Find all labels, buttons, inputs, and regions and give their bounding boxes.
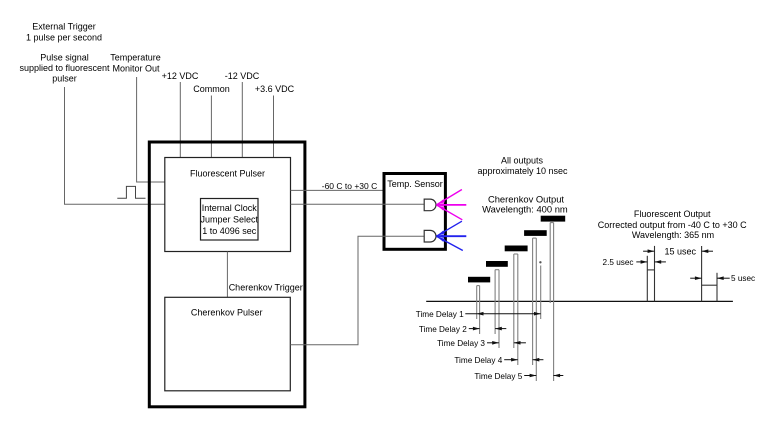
wire Common: [210, 96, 212, 158]
wire external trigger to fluorescent pulser: [65, 87, 165, 204]
wire +3.6 VDC: [273, 96, 275, 158]
cherenkov pulse 5 with extension lines: [550, 223, 553, 381]
block Fluorescent Pulser: [165, 158, 291, 252]
svg-text:All outputs: All outputs: [501, 156, 544, 166]
fluorescent pulse A with extension lines: [647, 246, 654, 302]
svg-text:-60 C to +30 C: -60 C to +30 C: [322, 181, 378, 191]
wire fluorescent pulser to sensor diode 1: [291, 203, 425, 205]
cherenkov pulse 1 with extension lines: [477, 286, 480, 334]
wire temperature monitor out: [137, 77, 165, 182]
svg-text:Time Delay 3: Time Delay 3: [437, 339, 485, 348]
svg-text:1 to 4096 sec: 1 to 4096 sec: [202, 226, 257, 236]
cherenkov bar 1: [468, 277, 490, 283]
dimension Time Delay 1: [416, 310, 541, 319]
svg-text:+3.6 VDC: +3.6 VDC: [255, 84, 295, 94]
wire Cherenkov Trigger: [226, 252, 228, 298]
svg-text:Wavelength: 365 nm: Wavelength: 365 nm: [632, 230, 714, 240]
svg-text:External Trigger: External Trigger: [32, 22, 96, 32]
LED D1: [424, 199, 436, 211]
svg-text:Time Delay 1: Time Delay 1: [416, 310, 464, 319]
dimension Time Delay 4: [454, 356, 543, 365]
LED D1 light rays (magenta): [436, 190, 466, 220]
cherenkov bar 5: [541, 216, 566, 222]
svg-text:Cherenkov Trigger: Cherenkov Trigger: [229, 282, 303, 292]
LED D2: [424, 230, 436, 242]
dimension 2.5 usec: [603, 258, 666, 267]
dimension Time Delay 3: [437, 339, 526, 348]
dimension 5 usec: [690, 274, 755, 283]
svg-text:5 usec: 5 usec: [731, 274, 755, 283]
dimension 15 usec: [643, 247, 713, 257]
svg-text:supplied to fluorescent: supplied to fluorescent: [19, 63, 110, 73]
svg-text:Fluorescent Pulser: Fluorescent Pulser: [190, 169, 265, 179]
svg-text:approximately 10 nsec: approximately 10 nsec: [477, 166, 568, 176]
svg-text:Temperature: Temperature: [110, 53, 161, 63]
chassis outer box (thick): [149, 142, 305, 407]
svg-text:Time Delay 5: Time Delay 5: [474, 372, 522, 381]
svg-text:-12 VDC: -12 VDC: [225, 71, 260, 81]
svg-text:Time Delay 4: Time Delay 4: [454, 356, 502, 365]
dimension Time Delay 2: [419, 325, 506, 334]
label: Temperature Monitor Out: [110, 53, 161, 74]
wire fluorescent pulser to temp sensor (upper): [291, 189, 385, 191]
reference dotted line: [539, 261, 541, 263]
svg-text:Cherenkov Pulser: Cherenkov Pulser: [191, 308, 263, 318]
cherenkov bar 2: [486, 261, 508, 267]
cherenkov pulse 2 with extension lines: [495, 270, 499, 348]
svg-text:15 usec: 15 usec: [665, 247, 697, 257]
cherenkov bar 3: [505, 246, 528, 252]
LED D2 light rays (blue): [436, 221, 466, 250]
cherenkov pulse 3 with extension lines: [514, 254, 518, 365]
fluorescent pulse B with extension lines: [702, 246, 717, 301]
svg-text:Internal Clock: Internal Clock: [202, 203, 258, 213]
svg-text:Corrected output from -40 C to: Corrected output from -40 C to +30 C: [598, 220, 747, 230]
label: Fluorescent Output: [598, 209, 747, 240]
wire +12 VDC: [179, 82, 181, 158]
svg-text:Jumper Select: Jumper Select: [201, 215, 259, 225]
dimension Time Delay 5: [474, 372, 563, 381]
wire cherenkov pulser to sensor diode 2: [290, 236, 424, 345]
wire -12 VDC: [241, 82, 243, 158]
svg-text:Common: Common: [193, 84, 230, 94]
block Cherenkov Pulser: [165, 297, 290, 391]
svg-text:Time Delay 2: Time Delay 2: [419, 325, 467, 334]
timing baseline: [426, 300, 733, 302]
svg-text:+12 VDC: +12 VDC: [162, 71, 199, 81]
svg-text:Temp. Sensor: Temp. Sensor: [387, 179, 443, 189]
svg-text:2.5 usec: 2.5 usec: [603, 258, 634, 267]
cherenkov bar 4: [524, 230, 547, 236]
svg-text:Pulse signal: Pulse signal: [40, 52, 89, 62]
block Internal Clock Jumper Select: [201, 199, 259, 241]
svg-text:pulser: pulser: [52, 73, 77, 83]
svg-text:Fluorescent Output: Fluorescent Output: [634, 209, 711, 219]
svg-text:Wavelength: 400 nm: Wavelength: 400 nm: [482, 204, 568, 215]
svg-text:1 pulse per second: 1 pulse per second: [26, 33, 102, 43]
cherenkov pulse 4 with extension lines: [533, 238, 537, 381]
label: External Trigger: [26, 22, 102, 43]
label: All outputs approximately 10 nsec: [477, 156, 568, 177]
block Temp. Sensor (thick): [384, 174, 445, 250]
label: Pulse signal supplied to fluorescent pulser: [19, 52, 110, 83]
label: Cherenkov Output Wavelength 400 nm: [482, 194, 568, 215]
svg-text:Monitor Out: Monitor Out: [112, 64, 160, 74]
pulse waveform symbol: [117, 186, 145, 198]
